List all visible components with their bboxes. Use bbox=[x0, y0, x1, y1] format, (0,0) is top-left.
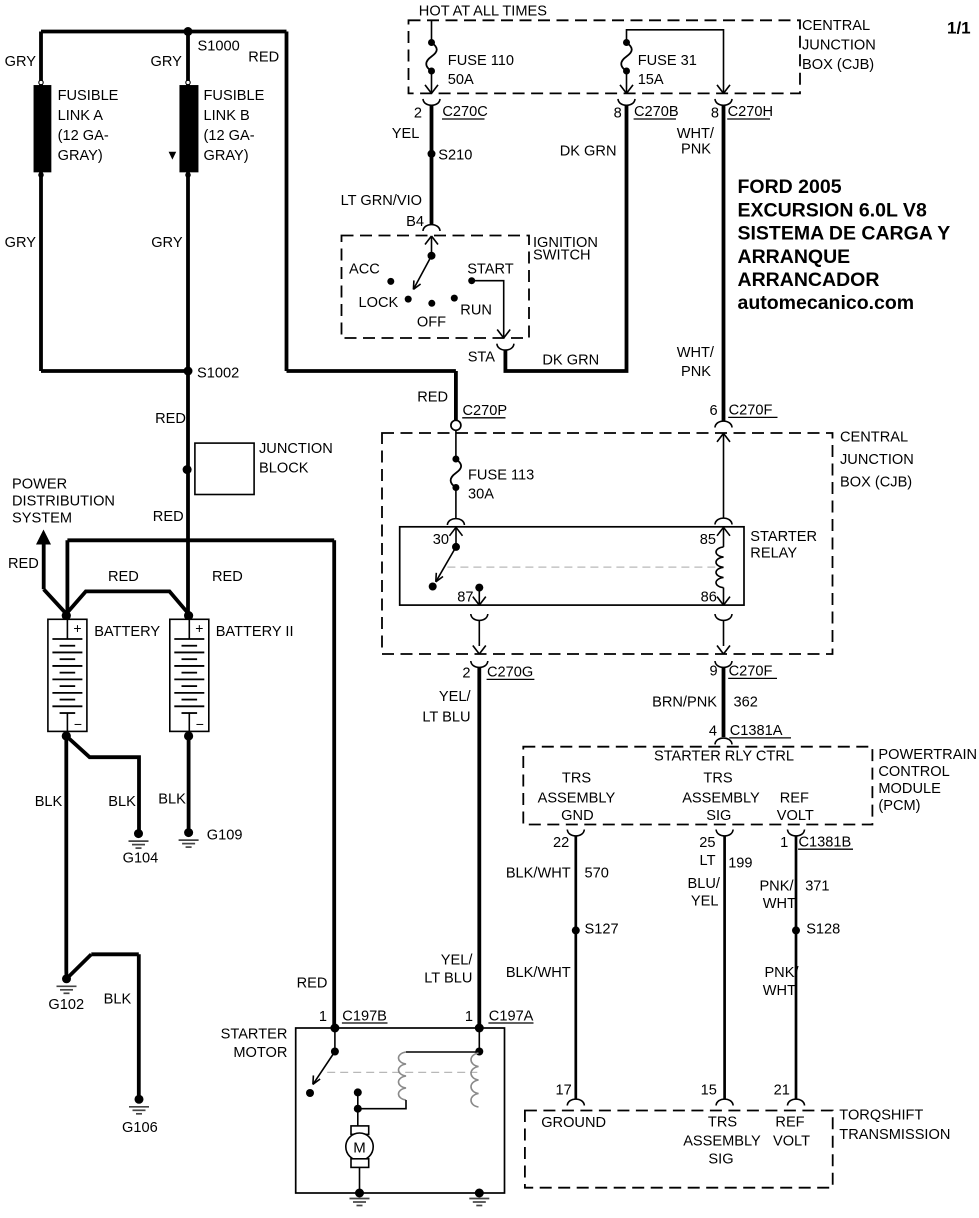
svg-text:BRN/PNK: BRN/PNK bbox=[652, 695, 717, 711]
svg-text:FORD 2005: FORD 2005 bbox=[738, 176, 842, 198]
svg-text:2: 2 bbox=[414, 105, 422, 121]
svg-text:ARRANQUE: ARRANQUE bbox=[738, 246, 851, 268]
svg-text:BATTERY II: BATTERY II bbox=[216, 624, 294, 640]
svg-text:30A: 30A bbox=[468, 486, 494, 502]
svg-text:STA: STA bbox=[468, 350, 496, 366]
svg-text:YEL/: YEL/ bbox=[439, 689, 472, 705]
svg-text:DK GRN: DK GRN bbox=[542, 352, 599, 368]
svg-text:15A: 15A bbox=[638, 72, 664, 88]
svg-text:BLK: BLK bbox=[104, 992, 132, 1008]
svg-text:G109: G109 bbox=[207, 828, 243, 844]
svg-text:(12 GA-: (12 GA- bbox=[58, 128, 109, 144]
svg-text:ARRANCADOR: ARRANCADOR bbox=[738, 269, 880, 291]
svg-text:JUNCTION: JUNCTION bbox=[259, 441, 333, 457]
svg-text:SISTEMA DE CARGA Y: SISTEMA DE CARGA Y bbox=[738, 223, 951, 245]
svg-text:GRAY): GRAY) bbox=[58, 148, 103, 164]
svg-text:WHT: WHT bbox=[763, 896, 796, 912]
svg-text:RED: RED bbox=[248, 50, 279, 66]
svg-text:LT GRN/VIO: LT GRN/VIO bbox=[341, 193, 422, 209]
svg-text:CENTRAL: CENTRAL bbox=[840, 430, 908, 446]
svg-text:RED: RED bbox=[155, 411, 186, 427]
svg-text:STARTER RLY CTRL: STARTER RLY CTRL bbox=[654, 749, 794, 765]
svg-text:−: − bbox=[74, 716, 82, 732]
svg-text:SIG: SIG bbox=[708, 1151, 733, 1167]
svg-text:BLK/WHT: BLK/WHT bbox=[506, 866, 571, 882]
svg-text:G106: G106 bbox=[122, 1120, 158, 1136]
svg-text:REF: REF bbox=[775, 1115, 804, 1131]
svg-text:RED: RED bbox=[417, 390, 448, 406]
svg-text:21: 21 bbox=[774, 1082, 790, 1098]
svg-text:85: 85 bbox=[700, 532, 716, 548]
svg-text:C270P: C270P bbox=[463, 403, 508, 419]
svg-text:CENTRAL: CENTRAL bbox=[802, 18, 870, 34]
svg-text:MOTOR: MOTOR bbox=[233, 1045, 287, 1061]
svg-text:PNK: PNK bbox=[681, 364, 711, 380]
svg-text:PNK/: PNK/ bbox=[764, 965, 799, 981]
svg-text:17: 17 bbox=[555, 1082, 571, 1098]
svg-text:TRS: TRS bbox=[708, 1115, 737, 1131]
svg-text:TRANSMISSION: TRANSMISSION bbox=[839, 1127, 950, 1143]
svg-text:SWITCH: SWITCH bbox=[533, 248, 591, 264]
svg-text:25: 25 bbox=[699, 835, 715, 851]
svg-text:GRAY): GRAY) bbox=[204, 148, 249, 164]
svg-text:TORQSHIFT: TORQSHIFT bbox=[839, 1108, 923, 1124]
svg-text:BLK: BLK bbox=[35, 794, 63, 810]
svg-text:FUSE 110: FUSE 110 bbox=[448, 53, 514, 69]
svg-text:BLK: BLK bbox=[108, 794, 136, 810]
svg-text:PNK/: PNK/ bbox=[759, 878, 794, 894]
svg-text:G104: G104 bbox=[123, 851, 159, 867]
svg-text:BLU/: BLU/ bbox=[688, 876, 721, 892]
svg-text:15: 15 bbox=[701, 1082, 717, 1098]
svg-text:8: 8 bbox=[614, 105, 622, 121]
svg-text:RED: RED bbox=[212, 569, 243, 585]
svg-text:G102: G102 bbox=[48, 997, 84, 1013]
svg-text:STARTER: STARTER bbox=[750, 529, 817, 545]
svg-text:PNK: PNK bbox=[681, 142, 711, 158]
svg-text:C1381B: C1381B bbox=[799, 835, 852, 851]
svg-text:87: 87 bbox=[457, 589, 473, 605]
svg-text:C270G: C270G bbox=[487, 664, 533, 680]
svg-text:BLOCK: BLOCK bbox=[259, 461, 309, 477]
svg-text:1: 1 bbox=[780, 835, 788, 851]
svg-text:LOCK: LOCK bbox=[359, 295, 399, 311]
svg-text:C197A: C197A bbox=[489, 1008, 534, 1024]
svg-text:LT: LT bbox=[700, 853, 716, 869]
svg-text:C270B: C270B bbox=[634, 104, 679, 120]
svg-text:LT BLU: LT BLU bbox=[422, 709, 470, 725]
svg-text:1/1: 1/1 bbox=[947, 19, 971, 38]
svg-text:30: 30 bbox=[433, 532, 449, 548]
svg-text:371: 371 bbox=[805, 878, 829, 894]
svg-text:JUNCTION: JUNCTION bbox=[840, 452, 914, 468]
svg-text:WHT/: WHT/ bbox=[677, 126, 715, 142]
svg-text:ACC: ACC bbox=[349, 262, 380, 278]
svg-text:S127: S127 bbox=[585, 922, 619, 938]
svg-text:S210: S210 bbox=[438, 148, 472, 164]
svg-text:JUNCTION: JUNCTION bbox=[802, 37, 876, 53]
svg-text:M: M bbox=[353, 1140, 366, 1157]
svg-text:S1000: S1000 bbox=[198, 39, 240, 55]
svg-text:2: 2 bbox=[462, 666, 470, 682]
svg-text:RELAY: RELAY bbox=[750, 546, 797, 562]
svg-text:4: 4 bbox=[709, 723, 717, 739]
svg-text:RED: RED bbox=[8, 556, 39, 572]
svg-text:automecanico.com: automecanico.com bbox=[738, 292, 915, 314]
svg-text:22: 22 bbox=[553, 835, 569, 851]
svg-text:YEL: YEL bbox=[691, 894, 719, 910]
svg-text:+: + bbox=[195, 620, 203, 636]
svg-text:ASSEMBLY: ASSEMBLY bbox=[683, 1133, 761, 1149]
svg-text:VOLT: VOLT bbox=[777, 808, 814, 824]
svg-text:FUSIBLE: FUSIBLE bbox=[204, 88, 265, 104]
svg-text:RED: RED bbox=[297, 976, 328, 992]
svg-text:9: 9 bbox=[709, 663, 717, 679]
svg-text:BLK: BLK bbox=[158, 792, 186, 808]
svg-text:GROUND: GROUND bbox=[541, 1115, 606, 1131]
svg-text:86: 86 bbox=[701, 589, 717, 605]
svg-text:−: − bbox=[196, 716, 204, 732]
svg-text:GND: GND bbox=[561, 808, 593, 824]
svg-text:FUSE 113: FUSE 113 bbox=[468, 468, 534, 484]
svg-text:WHT/: WHT/ bbox=[677, 345, 715, 361]
svg-text:VOLT: VOLT bbox=[773, 1133, 810, 1149]
svg-text:50A: 50A bbox=[448, 72, 474, 88]
svg-text:B4: B4 bbox=[406, 214, 424, 230]
svg-text:STARTER: STARTER bbox=[221, 1026, 288, 1042]
svg-text:C270H: C270H bbox=[728, 104, 773, 120]
svg-text:1: 1 bbox=[319, 1009, 327, 1025]
svg-text:YEL: YEL bbox=[392, 126, 420, 142]
svg-text:199: 199 bbox=[728, 856, 752, 872]
svg-text:(12 GA-: (12 GA- bbox=[204, 128, 255, 144]
svg-text:RED: RED bbox=[153, 509, 184, 525]
svg-text:ASSEMBLY: ASSEMBLY bbox=[538, 790, 616, 806]
svg-text:LT BLU: LT BLU bbox=[424, 971, 472, 987]
svg-text:SIG: SIG bbox=[706, 808, 731, 824]
svg-text:LINK A: LINK A bbox=[58, 108, 104, 124]
svg-text:GRY: GRY bbox=[5, 54, 37, 70]
svg-text:WHT: WHT bbox=[763, 983, 796, 999]
svg-text:DISTRIBUTION: DISTRIBUTION bbox=[12, 494, 115, 510]
svg-text:BOX (CJB): BOX (CJB) bbox=[840, 475, 912, 491]
svg-text:GRY: GRY bbox=[5, 235, 37, 251]
svg-text:C270C: C270C bbox=[442, 104, 487, 120]
svg-text:DK GRN: DK GRN bbox=[560, 144, 617, 160]
svg-text:S128: S128 bbox=[806, 922, 840, 938]
svg-text:C270F: C270F bbox=[729, 663, 773, 679]
svg-text:TRS: TRS bbox=[562, 770, 591, 786]
svg-text:GRY: GRY bbox=[151, 235, 183, 251]
svg-text:BLK/WHT: BLK/WHT bbox=[506, 965, 571, 981]
svg-text:C1381A: C1381A bbox=[730, 723, 783, 739]
svg-text:GRY: GRY bbox=[151, 54, 183, 70]
svg-text:POWER: POWER bbox=[12, 477, 67, 493]
svg-text:570: 570 bbox=[585, 866, 609, 882]
svg-text:S1002: S1002 bbox=[197, 366, 239, 382]
svg-text:C197B: C197B bbox=[342, 1008, 387, 1024]
svg-text:C270F: C270F bbox=[729, 403, 773, 419]
svg-text:FUSE 31: FUSE 31 bbox=[638, 53, 697, 69]
svg-text:EXCURSION 6.0L V8: EXCURSION 6.0L V8 bbox=[738, 199, 927, 221]
svg-text:RED: RED bbox=[108, 569, 139, 585]
svg-text:(PCM): (PCM) bbox=[878, 798, 920, 814]
svg-text:CONTROL: CONTROL bbox=[878, 764, 949, 780]
svg-text:+: + bbox=[73, 620, 81, 636]
svg-text:1: 1 bbox=[465, 1009, 473, 1025]
svg-text:OFF: OFF bbox=[417, 315, 446, 331]
svg-text:MODULE: MODULE bbox=[878, 781, 941, 797]
svg-text:BOX (CJB): BOX (CJB) bbox=[802, 57, 874, 73]
svg-text:BATTERY: BATTERY bbox=[94, 624, 160, 640]
svg-text:LINK B: LINK B bbox=[204, 108, 250, 124]
svg-text:REF: REF bbox=[780, 790, 809, 806]
svg-text:8: 8 bbox=[711, 105, 719, 121]
svg-text:START: START bbox=[467, 262, 514, 278]
svg-text:YEL/: YEL/ bbox=[441, 953, 474, 969]
svg-text:RUN: RUN bbox=[460, 303, 492, 319]
svg-text:362: 362 bbox=[734, 695, 758, 711]
svg-text:HOT AT ALL TIMES: HOT AT ALL TIMES bbox=[419, 4, 547, 20]
svg-text:FUSIBLE: FUSIBLE bbox=[58, 88, 119, 104]
svg-text:TRS: TRS bbox=[703, 770, 732, 786]
svg-text:SYSTEM: SYSTEM bbox=[12, 511, 72, 527]
svg-text:6: 6 bbox=[709, 403, 717, 419]
svg-text:POWERTRAIN: POWERTRAIN bbox=[878, 747, 977, 763]
svg-text:ASSEMBLY: ASSEMBLY bbox=[682, 790, 760, 806]
